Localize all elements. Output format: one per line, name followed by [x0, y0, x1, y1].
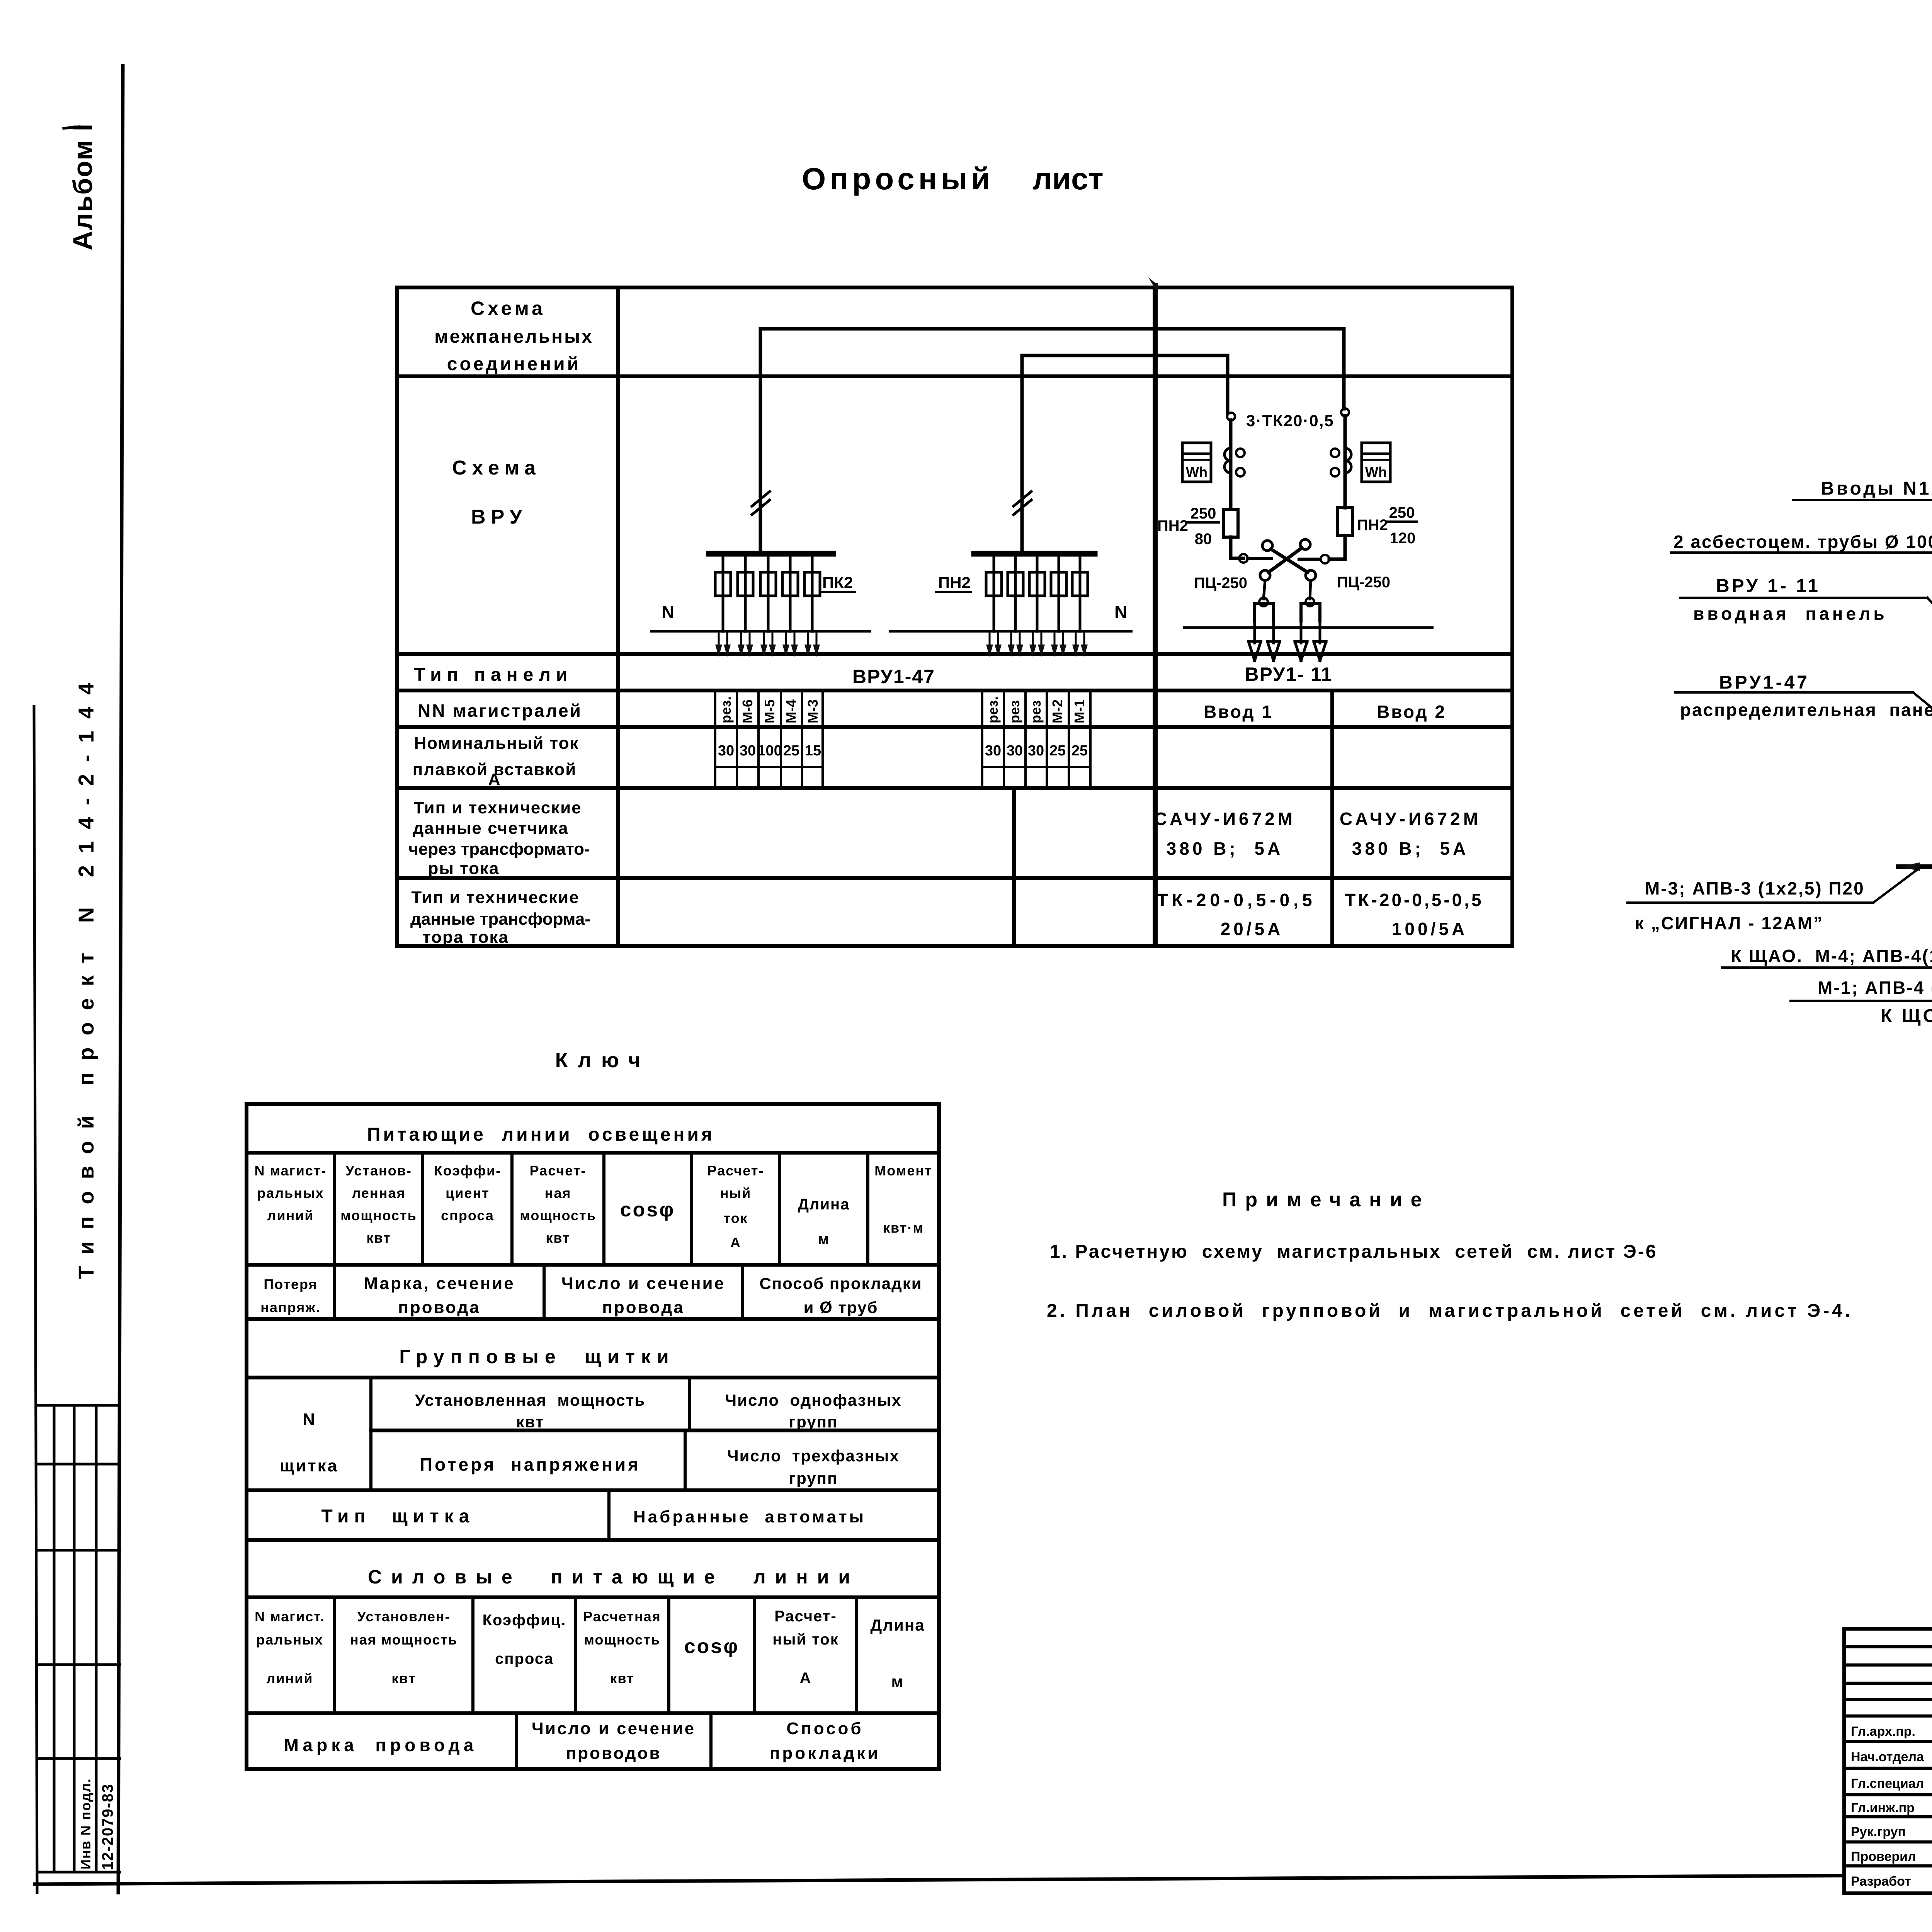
- arrows below N line 2: [986, 631, 1088, 657]
- N line 2: [890, 630, 1131, 633]
- stamp rotated text inv podl: [78, 1778, 94, 1869]
- break marks feeder 2: [1014, 492, 1031, 515]
- svg-text:Гл.инж.пр: Гл.инж.пр: [1851, 1801, 1915, 1815]
- svg-text:Число и сечение: Число и сечение: [532, 1719, 696, 1738]
- wire outer thin left line: [34, 706, 37, 1893]
- svg-text:Примечание: Примечание: [1222, 1189, 1430, 1211]
- fuses panel 2: [986, 554, 1088, 631]
- svg-text:Номинальный ток: Номинальный ток: [414, 734, 579, 753]
- svg-text:N: N: [1114, 602, 1127, 622]
- CT right: [1345, 448, 1351, 473]
- svg-text:ный ток: ный ток: [772, 1631, 839, 1648]
- svg-text:Разработ: Разработ: [1851, 1874, 1911, 1889]
- svg-text:ПК2: ПК2: [822, 573, 853, 592]
- svg-text:Групповые щитки: Групповые щитки: [399, 1346, 675, 1367]
- svg-text:рез: рез: [1028, 700, 1044, 723]
- svg-text:квт: квт: [366, 1230, 391, 1246]
- vertical text Album I: [68, 123, 98, 250]
- svg-text:20/5А: 20/5А: [1221, 919, 1284, 939]
- svg-text:распределительная панель: распределительная панель: [1680, 700, 1932, 720]
- svg-text:М-1: М-1: [1071, 699, 1087, 723]
- svg-text:Установ-: Установ-: [345, 1163, 412, 1179]
- svg-text:25: 25: [1049, 743, 1066, 759]
- svg-text:через трансформато-: через трансформато-: [408, 840, 590, 859]
- svg-text:М-5: М-5: [762, 699, 777, 723]
- svg-text:А: А: [800, 1670, 812, 1687]
- svg-text:Число и сечение: Число и сечение: [561, 1274, 725, 1293]
- svg-text:Длина: Длина: [870, 1616, 925, 1634]
- wire feeder divider with arrow: [1155, 285, 1158, 946]
- svg-text:Число трехфазных: Число трехфазных: [727, 1447, 900, 1465]
- N line 1: [651, 630, 870, 633]
- svg-text:М-1; АПВ-4 (1х6) П20: М-1; АПВ-4 (1х6) П20: [1818, 978, 1932, 998]
- svg-text:Марка, сечение: Марка, сечение: [364, 1274, 515, 1293]
- svg-text:ВРУ1- 11: ВРУ1- 11: [1245, 663, 1332, 685]
- svg-text:Тип и технические: Тип и технические: [411, 888, 579, 907]
- svg-text:Установленная мощность: Установленная мощность: [415, 1391, 645, 1409]
- outgoing stirrup left: [1264, 580, 1265, 599]
- svg-text:Wh: Wh: [1365, 464, 1387, 480]
- svg-text:Тип панели: Тип панели: [414, 665, 573, 685]
- svg-text:380 В; 5А: 380 В; 5А: [1167, 838, 1283, 859]
- svg-text:Ключ: Ключ: [555, 1049, 651, 1072]
- terminal circle right top: [1341, 408, 1349, 416]
- svg-text:Способ: Способ: [786, 1719, 863, 1738]
- svg-text:ВРУ 1- 11: ВРУ 1- 11: [1716, 576, 1820, 596]
- svg-text:ПН2: ПН2: [938, 573, 971, 592]
- svg-text:2. План силовой групповой и: 2. План силовой групповой и магистрально…: [1047, 1301, 1853, 1321]
- svg-text:Опросный: Опросный: [802, 162, 994, 196]
- svg-text:м: м: [891, 1672, 904, 1690]
- svg-text:проводов: проводов: [566, 1744, 662, 1763]
- svg-text:квт: квт: [546, 1230, 570, 1246]
- fuses panel 1: [715, 554, 820, 631]
- svg-text:Вводы N1; N2: Вводы N1; N2: [1821, 478, 1932, 499]
- svg-text:NN магистралей: NN магистралей: [418, 701, 582, 721]
- svg-text:вводная панель: вводная панель: [1693, 604, 1888, 624]
- meter Wh right: [1362, 443, 1390, 482]
- svg-text:тора тока: тора тока: [422, 928, 509, 947]
- wire VRU1-11 left branch: [1231, 420, 1243, 558]
- svg-text:М-3: М-3: [805, 699, 821, 723]
- svg-text:12-2079-83: 12-2079-83: [99, 1783, 116, 1870]
- svg-text:250: 250: [1190, 505, 1216, 522]
- wire conduit M-3: [1898, 864, 1932, 869]
- svg-text:квт: квт: [516, 1413, 544, 1431]
- vertical text project number: [74, 671, 98, 1279]
- svg-text:мощность: мощность: [584, 1632, 660, 1648]
- svg-text:15: 15: [805, 743, 821, 759]
- rotated magistral labels group B: [985, 696, 1001, 723]
- svg-text:линий: линий: [266, 1670, 313, 1686]
- svg-text:ток: ток: [723, 1210, 748, 1226]
- bottom-left stamp table: [37, 1405, 120, 1872]
- svg-text:САЧУ-И672М: САЧУ-И672М: [1154, 809, 1296, 829]
- svg-text:1. Расчетную схему магистрал: 1. Расчетную схему магистральных сетей с…: [1050, 1242, 1658, 1262]
- CT left: [1225, 448, 1231, 473]
- wire VRU1-11 right branch: [1329, 416, 1345, 559]
- svg-text:N магист.: N магист.: [255, 1609, 325, 1624]
- svg-text:групп: групп: [789, 1413, 838, 1431]
- svg-text:380 В; 5А: 380 В; 5А: [1352, 838, 1469, 859]
- svg-text:120: 120: [1390, 530, 1416, 547]
- switch PC-250 crossover: [1239, 554, 1248, 563]
- fuse PN2 250/120: [1338, 508, 1352, 536]
- svg-text:ВРУ1-47: ВРУ1-47: [1719, 672, 1810, 693]
- svg-text:ПЦ-250: ПЦ-250: [1337, 574, 1390, 591]
- wire mezhpanel connection 1: [760, 329, 1344, 554]
- svg-text:Инв N подл.: Инв N подл.: [78, 1778, 94, 1869]
- svg-text:К ЩО N1: К ЩО N1: [1881, 1006, 1932, 1026]
- svg-text:Wh: Wh: [1186, 464, 1207, 480]
- svg-text:25: 25: [783, 743, 799, 759]
- main table grid: [397, 287, 1512, 946]
- svg-text:рез.: рез.: [718, 696, 734, 723]
- svg-text:лист: лист: [1032, 162, 1104, 196]
- svg-text:ральных: ральных: [257, 1185, 324, 1201]
- wire bottom sheet line: [35, 1876, 1844, 1884]
- svg-text:Набранные автоматы: Набранные автоматы: [633, 1507, 866, 1526]
- svg-text:соединений: соединений: [447, 354, 581, 374]
- svg-text:Рук.груп: Рук.груп: [1851, 1825, 1906, 1839]
- svg-text:80: 80: [1195, 531, 1212, 548]
- svg-text:Питающие линии освещения: Питающие линии освещения: [367, 1124, 715, 1145]
- svg-text:циент: циент: [446, 1185, 490, 1201]
- meter Wh left: [1182, 443, 1211, 482]
- svg-text:ПН2: ПН2: [1157, 517, 1188, 534]
- svg-text:Расчет-: Расчет-: [707, 1163, 764, 1179]
- svg-text:прокладки: прокладки: [770, 1744, 880, 1763]
- svg-text:30: 30: [1028, 743, 1044, 759]
- svg-text:м: м: [818, 1231, 830, 1248]
- svg-text:30: 30: [718, 743, 734, 759]
- svg-text:ТК-20-0,5-0,5: ТК-20-0,5-0,5: [1157, 890, 1316, 910]
- svg-text:Тип щитка: Тип щитка: [321, 1506, 475, 1527]
- svg-text:ТК-20-0,5-0,5: ТК-20-0,5-0,5: [1345, 890, 1483, 910]
- svg-text:ный: ный: [720, 1185, 752, 1201]
- svg-text:N: N: [303, 1410, 316, 1429]
- svg-text:Расчет-: Расчет-: [530, 1163, 587, 1179]
- fuse-number cell group A: [715, 690, 823, 788]
- svg-text:Длина: Длина: [798, 1196, 850, 1213]
- svg-text:3·ТК20·0,5: 3·ТК20·0,5: [1246, 412, 1334, 430]
- svg-text:квт: квт: [391, 1670, 416, 1686]
- svg-text:Способ прокладки: Способ прокладки: [759, 1274, 922, 1293]
- svg-text:мощность: мощность: [340, 1207, 417, 1223]
- busbar panel 1: [709, 551, 833, 557]
- svg-text:данные трансформа-: данные трансформа-: [410, 910, 590, 929]
- svg-text:cosφ: cosφ: [620, 1199, 675, 1221]
- svg-text:Ввод 1: Ввод 1: [1204, 702, 1273, 722]
- svg-text:Потеря напряжения: Потеря напряжения: [420, 1454, 641, 1475]
- busbar panel 2: [974, 551, 1095, 557]
- svg-text:и Ø труб: и Ø труб: [804, 1298, 878, 1316]
- key table grid: [247, 1104, 939, 1769]
- svg-text:30: 30: [1007, 743, 1023, 759]
- fuse-number cell group B: [982, 690, 1090, 788]
- svg-text:Нач.отдела: Нач.отдела: [1851, 1750, 1924, 1764]
- svg-text:2 асбестоцем. трубы Ø 100 мм: 2 асбестоцем. трубы Ø 100 мм: [1673, 532, 1932, 552]
- svg-text:Коэффи-: Коэффи-: [434, 1163, 502, 1179]
- rotated magistral labels group A: [718, 696, 734, 723]
- svg-text:N: N: [662, 602, 674, 622]
- svg-text:Типовой проект N 214-2-144: Типовой проект N 214-2-144: [74, 671, 98, 1279]
- svg-text:Установлен-: Установлен-: [357, 1609, 450, 1624]
- svg-text:Потеря: Потеря: [264, 1276, 317, 1292]
- terminal circle left top: [1227, 413, 1235, 420]
- svg-text:ральных: ральных: [256, 1632, 323, 1648]
- outgoing stirrup right: [1310, 580, 1311, 599]
- svg-text:провода: провода: [602, 1298, 685, 1317]
- svg-text:Гл.арх.пр.: Гл.арх.пр.: [1851, 1724, 1915, 1739]
- svg-text:cosφ: cosφ: [684, 1635, 740, 1658]
- svg-text:линий: линий: [267, 1207, 314, 1223]
- svg-text:М-4: М-4: [783, 699, 799, 723]
- svg-text:30: 30: [740, 743, 756, 759]
- svg-text:Число однофазных: Число однофазных: [725, 1391, 902, 1409]
- svg-text:Альбом I: Альбом I: [68, 123, 98, 250]
- svg-text:ВРУ1-47: ВРУ1-47: [852, 666, 935, 687]
- svg-text:ры тока: ры тока: [428, 859, 499, 878]
- svg-text:Тип и технические: Тип и технические: [413, 798, 582, 817]
- svg-text:К ЩАО. М-4; АПВ-4(1х6) П20: К ЩАО. М-4; АПВ-4(1х6) П20: [1731, 946, 1932, 966]
- title block grid: [1844, 1629, 1932, 1893]
- svg-text:Расчетная: Расчетная: [583, 1609, 661, 1624]
- svg-text:Проверил: Проверил: [1851, 1849, 1916, 1864]
- svg-text:М-6: М-6: [740, 699, 755, 723]
- svg-text:25: 25: [1071, 743, 1088, 759]
- svg-text:рез: рез: [1007, 700, 1022, 723]
- svg-text:Коэффиц.: Коэффиц.: [483, 1612, 566, 1629]
- svg-text:N магист-: N магист-: [255, 1163, 327, 1179]
- wire left sheet border: [118, 66, 123, 1893]
- fuse PN2 250/80: [1223, 509, 1238, 537]
- svg-text:рез.: рез.: [985, 696, 1001, 723]
- svg-text:спроса: спроса: [495, 1650, 554, 1667]
- wire mezhpanel connection 2: [1022, 355, 1228, 554]
- arrows below N line 1: [715, 631, 820, 657]
- svg-text:Схема: Схема: [452, 457, 541, 479]
- big outgoing arrows: [1248, 621, 1326, 661]
- svg-text:провода: провода: [398, 1298, 481, 1317]
- svg-text:ленная: ленная: [352, 1185, 406, 1201]
- svg-text:Гл.специал: Гл.специал: [1851, 1776, 1924, 1791]
- svg-text:квт·м: квт·м: [883, 1220, 924, 1236]
- svg-text:М-2: М-2: [1049, 699, 1065, 723]
- svg-text:квт: квт: [610, 1670, 634, 1686]
- svg-text:мощность: мощность: [520, 1207, 596, 1223]
- svg-text:М-3; АПВ-3 (1х2,5) П20: М-3; АПВ-3 (1х2,5) П20: [1645, 878, 1865, 898]
- svg-text:ная: ная: [545, 1185, 571, 1201]
- svg-text:Ввод 2: Ввод 2: [1377, 702, 1446, 722]
- svg-text:САЧУ-И672М: САЧУ-И672М: [1340, 809, 1481, 829]
- svg-text:межпанельных: межпанельных: [434, 327, 594, 347]
- svg-text:к „СИГНАЛ - 12АМ”: к „СИГНАЛ - 12АМ”: [1635, 913, 1823, 933]
- svg-text:ПН2: ПН2: [1357, 517, 1388, 534]
- svg-text:ВРУ: ВРУ: [471, 506, 527, 528]
- svg-text:спроса: спроса: [441, 1207, 494, 1223]
- svg-text:напряж.: напряж.: [260, 1299, 321, 1315]
- break marks feeder 1: [752, 492, 770, 515]
- svg-text:Схема: Схема: [471, 298, 546, 319]
- svg-text:А: А: [730, 1235, 741, 1250]
- svg-text:30: 30: [985, 743, 1001, 759]
- svg-text:щитка: щитка: [280, 1456, 338, 1475]
- svg-text:Силовые питающие линии: Силовые питающие линии: [368, 1566, 859, 1588]
- svg-text:250: 250: [1389, 504, 1415, 521]
- svg-text:ная мощность: ная мощность: [350, 1632, 457, 1648]
- svg-text:данные счетчика: данные счетчика: [413, 819, 568, 838]
- svg-text:Марка провода: Марка провода: [284, 1735, 478, 1755]
- svg-text:А: А: [488, 770, 501, 789]
- svg-text:Расчет-: Расчет-: [774, 1608, 837, 1625]
- N line VRU1-11: [1184, 626, 1432, 629]
- svg-text:ПЦ-250: ПЦ-250: [1194, 575, 1247, 592]
- svg-text:100: 100: [757, 743, 782, 759]
- svg-text:Момент: Момент: [874, 1163, 932, 1179]
- svg-text:групп: групп: [789, 1469, 838, 1487]
- stamp rotated text 12-2079-83: [99, 1783, 116, 1870]
- svg-text:100/5А: 100/5А: [1392, 919, 1468, 939]
- title block outer: [1844, 1629, 1932, 1893]
